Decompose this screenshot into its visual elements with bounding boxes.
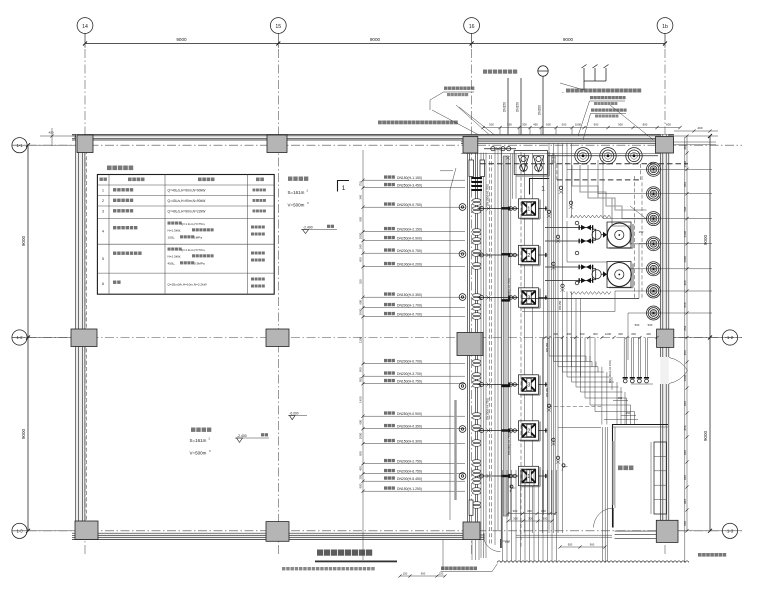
svg-text:Q=25m3/h,H=10m,N=2.2kW: Q=25m3/h,H=10m,N=2.2kW — [168, 283, 207, 287]
pipe label DN200(H-5.450) — [361, 476, 465, 482]
pipe riser R3 at right wall — [647, 212, 713, 226]
long horizontal mains — [522, 299, 639, 312]
svg-text:450L,: 450L, — [168, 262, 176, 266]
wall sleeve with puddle flange 5 — [459, 426, 466, 433]
pipe label DN150(H-0.750) — [361, 379, 465, 385]
top dimension line 9000 spans — [83, 34, 667, 49]
dashed equipment outline below header — [557, 164, 641, 180]
elevation marker -6.000 — [288, 412, 307, 420]
axis bubble right 1-2 — [722, 330, 737, 345]
section mark 1 in tank — [338, 181, 350, 193]
exterior wall left — [76, 135, 87, 540]
svg-text:DN150: DN150 — [545, 342, 549, 352]
svg-text:400: 400 — [646, 332, 651, 336]
svg-text:S=161m: S=161m — [288, 190, 305, 195]
column G1-C — [75, 521, 98, 540]
svg-text:300: 300 — [522, 122, 527, 126]
svg-text:DN200(H-0.700): DN200(H-0.700) — [397, 313, 422, 317]
svg-text:DN250(H-0.900): DN250(H-0.900) — [397, 237, 422, 241]
note outdoor pump adapter right — [561, 89, 641, 95]
svg-text:DN250(H-0.900): DN250(H-0.900) — [397, 412, 422, 416]
svg-text:900: 900 — [421, 572, 426, 576]
gray stepped pipes from top risers — [572, 165, 647, 244]
flexible joint zigzag below unit M2 — [570, 292, 611, 295]
axis bubble top 16 — [464, 18, 480, 34]
svg-text:5: 5 — [102, 257, 104, 261]
svg-text:Q=40L/s,H=90m,N=90kW: Q=40L/s,H=90m,N=90kW — [168, 199, 207, 203]
svg-text:300: 300 — [593, 332, 598, 336]
pipe riser R1 at right wall — [647, 162, 713, 176]
svg-text:Q=40L/s,H=90m,N=22kW: Q=40L/s,H=90m,N=22kW — [168, 210, 207, 214]
svg-text:←: ← — [561, 89, 565, 94]
pipes from wall to pump 1 — [513, 154, 517, 199]
svg-text:1450: 1450 — [359, 396, 363, 403]
pressure tank nozzle symbol 2 — [533, 156, 544, 172]
gauge circles on dashed line — [575, 221, 579, 285]
diagonal connector to riser R3 — [630, 206, 647, 219]
vertical axis grid line 1 — [84, 34, 86, 557]
svg-text:-2.400: -2.400 — [303, 226, 313, 230]
svg-text:150: 150 — [359, 474, 363, 479]
valve marks on manifold verticals — [547, 186, 573, 464]
bottom-right note text — [698, 553, 726, 557]
column G3-A — [463, 137, 478, 154]
wall sleeve with puddle flange 2 — [459, 251, 466, 258]
svg-text:450: 450 — [359, 257, 363, 262]
fire pump P3 — [478, 288, 548, 308]
svg-text:300: 300 — [567, 332, 572, 336]
svg-text:1b: 1b — [662, 24, 668, 30]
svg-text:150: 150 — [639, 230, 644, 234]
diagonal leader top right — [560, 83, 654, 140]
leader lines from notes to wall penetrations — [432, 105, 494, 135]
header pipe with gate valves below wall — [484, 147, 516, 160]
svg-text:DN200(H-3.700): DN200(H-3.700) — [397, 372, 422, 376]
main pump unit M2 motor — [607, 262, 633, 288]
horizontal axis grid line 2 — [12, 337, 742, 339]
svg-text:1MPa: 1MPa — [194, 236, 202, 240]
small dims on risers — [613, 396, 636, 416]
svg-text:150: 150 — [505, 540, 510, 544]
manifold vertical pipes group A — [544, 143, 563, 533]
svg-text:16: 16 — [469, 24, 475, 30]
svg-text:2900: 2900 — [359, 308, 363, 315]
drawing title text — [317, 550, 372, 556]
break line wavy — [497, 561, 689, 563]
svg-text:950: 950 — [359, 451, 363, 456]
svg-text:DN150(H-1.150): DN150(H-1.150) — [397, 176, 422, 180]
svg-text:DN150(H-0.350): DN150(H-0.350) — [397, 293, 422, 297]
svg-text:DN200(H-0.700): DN200(H-0.700) — [397, 360, 422, 364]
main pump unit M2 pump body — [592, 269, 607, 280]
svg-text:9000: 9000 — [21, 428, 26, 439]
column G3-B — [457, 333, 483, 356]
exterior wall top — [72, 135, 674, 144]
column G4-A — [656, 137, 674, 154]
note hydrant adapter left with leader — [430, 87, 474, 111]
axis bubble left 1-3 — [12, 523, 27, 538]
equipment schedule table — [97, 175, 274, 295]
fire pump P1 — [478, 199, 548, 219]
svg-text:1: 1 — [527, 474, 530, 480]
svg-text:450: 450 — [359, 466, 363, 471]
main pump unit M2 valve 2 — [545, 278, 593, 283]
sleeve boxes in interior wall — [469, 160, 485, 515]
svg-text:300: 300 — [513, 509, 518, 513]
svg-text:DN150(H-1.250): DN150(H-1.250) — [397, 487, 422, 491]
svg-text:500: 500 — [648, 323, 653, 327]
suction inlet pipe line — [510, 154, 512, 521]
svg-text:150: 150 — [541, 509, 546, 513]
svg-text:400: 400 — [48, 131, 53, 135]
svg-text:-2.400: -2.400 — [237, 434, 247, 438]
svg-text:300: 300 — [631, 332, 636, 336]
tank inner sump edge line — [440, 168, 456, 520]
svg-text:300: 300 — [528, 517, 533, 521]
rotated DN150 labels lower zone — [545, 300, 562, 397]
pipe label leader dimension chain — [362, 150, 364, 560]
solid riser pipes beside rack — [495, 147, 501, 548]
svg-text:2: 2 — [102, 199, 104, 203]
svg-text:DN200(H-0.750): DN200(H-0.750) — [397, 249, 422, 253]
segment dimension numbers rotated — [359, 181, 363, 488]
svg-text:15: 15 — [275, 24, 281, 30]
fire pump P5 — [478, 421, 548, 441]
pipe riser R7 at right wall — [647, 306, 713, 320]
pipe label DN150(H-1.150) — [361, 175, 465, 181]
exterior wall right — [660, 135, 669, 540]
main pump unit M1 pump body — [592, 229, 607, 240]
unit anchor dashed lines — [635, 176, 644, 300]
city water inlet pipes DN150 — [503, 78, 522, 135]
vertical axis grid line 4 — [664, 34, 666, 557]
svg-text:500: 500 — [359, 377, 363, 382]
fire water tank label lower — [190, 428, 212, 456]
svg-text:DN150(H-0.750): DN150(H-0.750) — [397, 380, 422, 384]
vertical axis grid line 2 — [277, 34, 279, 557]
table title text — [107, 166, 133, 171]
right dimension line 9000 spans — [670, 134, 742, 533]
svg-text:DN200: DN200 — [538, 105, 542, 115]
svg-text:V=500m: V=500m — [288, 203, 305, 208]
top-right 400 dimension — [670, 126, 718, 145]
left dimension line 9000 spans — [12, 143, 74, 533]
wall sleeve with puddle flange 4 — [459, 383, 466, 390]
svg-text:320: 320 — [359, 279, 363, 284]
pipe label DN200(H-0.750) — [361, 202, 465, 208]
pump room exit door with swing arc — [484, 533, 510, 551]
pump column connecting pipes — [525, 153, 533, 533]
vertical axis grid line 3 — [471, 34, 473, 557]
bottom small dimension chain — [398, 572, 446, 578]
table row 1 — [102, 188, 266, 192]
svg-text:9000: 9000 — [563, 37, 574, 42]
svg-text:DN200(H-0.750): DN200(H-0.750) — [397, 203, 422, 207]
svg-text:DN100x(H-0.150): DN100x(H-0.150) — [608, 360, 612, 383]
pipe label DN150(H-1.250) — [361, 486, 465, 492]
column G2-A — [267, 135, 287, 153]
svg-text:300: 300 — [618, 332, 623, 336]
svg-text:150L,: 150L, — [168, 236, 176, 240]
svg-text:600: 600 — [666, 122, 671, 126]
pipe label DN200(H-0.350) — [361, 424, 465, 430]
svg-text:N=1.5kW,: N=1.5kW, — [168, 255, 182, 259]
pipe rack flanges — [471, 177, 482, 191]
svg-text:1000: 1000 — [359, 432, 363, 439]
pipe label DN200(H-2.150) — [361, 227, 465, 233]
drawing title underline — [315, 561, 397, 563]
cascade dashed axis — [548, 406, 601, 408]
svg-text:0.9MPa: 0.9MPa — [194, 262, 205, 266]
control room door arc — [594, 508, 614, 528]
top wall dimension chain — [481, 122, 681, 134]
svg-text:300: 300 — [513, 517, 518, 521]
pipe label DN250(H-3.450) — [361, 183, 465, 189]
axis bubble left 1-1 — [12, 138, 27, 153]
cascade stepped pipes to lower right — [542, 338, 638, 534]
svg-text:DN100(H-0.200): DN100(H-0.200) — [397, 263, 422, 267]
svg-text:3: 3 — [527, 383, 530, 389]
riser pairs with flanges mid right — [623, 338, 653, 385]
right side dimension extension line — [684, 137, 686, 562]
elevation marker -2.400 lower — [235, 433, 269, 442]
svg-text:150: 150 — [439, 572, 444, 576]
horizontal axis grid line 3 — [12, 530, 742, 532]
svg-text:N=1.5kW,: N=1.5kW, — [168, 229, 182, 233]
pipe label DN200(H-6.750) — [361, 469, 465, 475]
mid-plan dimension chain at grid axis — [543, 323, 658, 339]
svg-text:9000: 9000 — [21, 235, 26, 246]
flexible joint zigzag above unit M1 — [570, 215, 611, 218]
svg-text:340: 340 — [359, 194, 363, 199]
svg-text:800: 800 — [643, 122, 648, 126]
svg-text:1: 1 — [342, 185, 346, 192]
svg-text:240: 240 — [359, 244, 363, 249]
pipe riser R5 at right wall — [647, 262, 713, 276]
vertical pipe risers along interior wall — [481, 153, 486, 558]
pipe riser R2 at right wall — [647, 187, 713, 201]
svg-text:9000: 9000 — [176, 37, 187, 42]
pipe label DN200(H-1.700) — [361, 303, 465, 309]
svg-text:600: 600 — [546, 122, 551, 126]
pipe rack flange oval pairs — [472, 199, 480, 509]
svg-text:950: 950 — [359, 216, 363, 221]
svg-text:600: 600 — [359, 419, 363, 424]
pressure tank nozzle symbol 1 — [518, 156, 529, 172]
table row 3 — [102, 209, 266, 213]
svg-text:DN250(H-3.450): DN250(H-3.450) — [397, 184, 422, 188]
svg-text:2: 2 — [527, 429, 530, 435]
svg-text:Q=1.1L/s,H=70m,: Q=1.1L/s,H=70m, — [181, 248, 206, 252]
pipe label DN200(H-0.750) — [361, 248, 465, 254]
svg-text:900: 900 — [359, 483, 363, 488]
axis bubble top 1b — [657, 18, 673, 34]
svg-text:DN150: DN150 — [545, 387, 549, 397]
svg-text:150: 150 — [626, 411, 631, 415]
svg-text:1100: 1100 — [359, 337, 363, 344]
svg-text:6: 6 — [102, 282, 104, 286]
bottom-right small dimension chain — [558, 543, 606, 549]
column G3-C — [463, 522, 480, 540]
dashed pipes beside rack — [490, 152, 522, 548]
trench dashed line along top wall — [480, 163, 688, 165]
svg-text:DN150: DN150 — [516, 102, 520, 112]
table row 6 — [102, 278, 265, 288]
wall sleeve with puddle flange 3 — [459, 294, 466, 301]
svg-text:500: 500 — [489, 122, 494, 126]
svg-text:1200: 1200 — [605, 332, 612, 336]
drawing note line — [282, 567, 375, 570]
trench edge lines right of door — [516, 535, 612, 537]
svg-text:DN200(H-0.350): DN200(H-0.350) — [397, 425, 422, 429]
bottom extension pipes through wall — [443, 540, 479, 571]
drain elbow hooks — [510, 464, 568, 492]
svg-text:900: 900 — [618, 122, 623, 126]
note outdoor adapter far-left — [378, 121, 458, 125]
svg-text:500: 500 — [562, 122, 567, 126]
section mark 1 in pump room — [530, 179, 550, 195]
svg-text:S=161m: S=161m — [190, 438, 207, 443]
svg-text:4: 4 — [102, 230, 104, 234]
svg-text:500: 500 — [568, 543, 573, 547]
svg-text:DN150: DN150 — [558, 300, 562, 310]
axis bubble top 14 — [77, 18, 93, 34]
svg-text:1000: 1000 — [575, 122, 582, 126]
horizontal axis grid line 1 — [12, 144, 742, 146]
svg-text:Q=40L/s,H=90m,N=90kW: Q=40L/s,H=90m,N=90kW — [168, 189, 207, 193]
svg-text:DN200(H-2.750): DN200(H-2.750) — [397, 460, 422, 464]
top-left 400 dimension — [40, 128, 78, 146]
manifold elbows to right risers — [567, 160, 647, 360]
suction valve circles at rack per pump — [480, 207, 491, 479]
svg-text:3: 3 — [102, 210, 104, 214]
column G4-B — [657, 329, 674, 347]
interior wall grid-3 between tank and pump room — [468, 140, 478, 533]
svg-text:900: 900 — [590, 543, 595, 547]
svg-text:9000: 9000 — [370, 37, 381, 42]
axis bubble left 1-2 — [12, 330, 27, 345]
pump unit surround box — [567, 221, 631, 262]
pipe riser R4 at right wall — [647, 237, 713, 251]
svg-text:1: 1 — [527, 207, 530, 213]
svg-text:1: 1 — [102, 189, 104, 193]
svg-text:DN150(H-0.700): DN150(H-0.700) — [486, 184, 490, 206]
wall sleeve with puddle flange 1 — [459, 204, 466, 211]
pipe label DN150(H-0.300) — [361, 439, 465, 445]
svg-text:DN200(H-5.450): DN200(H-5.450) — [397, 477, 422, 481]
note sprinkler adapter 2 with leader — [583, 109, 627, 141]
svg-text:150: 150 — [403, 572, 408, 576]
table header row — [100, 178, 264, 182]
pump room inner wall face line — [461, 153, 660, 155]
svg-text:14: 14 — [82, 24, 88, 30]
pipe label DN150(H-0.350) — [361, 292, 465, 298]
svg-text:600: 600 — [359, 299, 363, 304]
right wall exterior door — [669, 358, 688, 384]
pipe label DN200(H-0.700) — [361, 359, 465, 365]
fire connection flag symbols — [582, 65, 609, 91]
top pipe risers on header — [548, 148, 658, 164]
pipe label DN200(H-0.700) — [361, 312, 465, 318]
jockey pump platform box — [514, 151, 549, 177]
svg-text:DN150(H-4.750): DN150(H-4.750) — [486, 398, 490, 420]
svg-text:300: 300 — [543, 517, 548, 521]
svg-text:DN200(H-6.750): DN200(H-6.750) — [397, 470, 422, 474]
svg-text:9000: 9000 — [703, 430, 708, 441]
table row 2 — [102, 199, 266, 203]
svg-text:900: 900 — [594, 122, 599, 126]
svg-text:400: 400 — [697, 126, 702, 130]
pipe label DN250(H-0.900) — [361, 411, 465, 417]
exterior wall bottom — [72, 533, 484, 539]
fire water tank label upper — [288, 177, 310, 208]
svg-text:300: 300 — [580, 332, 585, 336]
svg-text:DN150: DN150 — [503, 102, 507, 112]
svg-text:1000: 1000 — [359, 232, 363, 239]
column G1-B — [71, 329, 97, 347]
table row 4 — [102, 222, 265, 240]
control cabinet stack — [651, 442, 667, 514]
svg-text:950: 950 — [359, 367, 363, 372]
pipe label DN250(H-0.900) — [361, 236, 465, 242]
main pump unit M2 valve 1 — [545, 264, 593, 269]
pipe label DN100(H-0.200) — [361, 262, 465, 268]
svg-text:1: 1 — [541, 186, 545, 193]
manifold vertical pipes group B — [567, 143, 581, 377]
fire pump P6 — [478, 466, 548, 486]
note sprinkler adapter 1 with leader — [578, 96, 626, 136]
svg-text:450: 450 — [533, 122, 538, 126]
pipe label DN200(H-3.700) — [361, 371, 465, 377]
pipe label DN200(H-2.750) — [361, 459, 465, 465]
main pump unit M1 motor — [607, 222, 633, 248]
svg-text:300: 300 — [527, 509, 532, 513]
svg-text:500: 500 — [635, 323, 640, 327]
table row 5 — [102, 248, 265, 266]
right inner segment dimension chain — [683, 134, 689, 532]
main pump unit M1 valve 1 — [545, 225, 593, 230]
svg-text:2: 2 — [527, 253, 530, 259]
valve symbol on DN200 inlet — [538, 66, 549, 135]
svg-text:DN200(H-0.750): DN200(H-0.750) — [507, 433, 511, 455]
column G1-A — [77, 135, 93, 153]
svg-text:950: 950 — [507, 122, 512, 126]
drain pipes dropping to break line — [503, 470, 557, 562]
column G2-C — [266, 522, 289, 542]
elevation marker -2.400 upper — [301, 225, 337, 234]
svg-text:DN150(H-0.300): DN150(H-0.300) — [397, 440, 422, 444]
wall sleeve with puddle flange 6 — [459, 473, 466, 480]
control room walls — [612, 425, 668, 539]
svg-text:V=500m: V=500m — [190, 451, 207, 456]
svg-text:DN200(H-2.150): DN200(H-2.150) — [397, 228, 422, 232]
svg-text:750: 750 — [359, 181, 363, 186]
fire pump P2 — [478, 245, 548, 265]
column G2-B — [266, 329, 289, 347]
suction header pipe DN250 gray band — [502, 156, 510, 516]
svg-text:150: 150 — [618, 396, 623, 400]
svg-text:Q=1.1L/s,H=75m,: Q=1.1L/s,H=75m, — [181, 222, 206, 226]
lower inner dimension chains — [506, 509, 556, 523]
control room label — [618, 466, 633, 471]
pipe riser R6 at right wall — [647, 284, 713, 298]
axis bubble right 1-3 — [722, 523, 737, 538]
main pump unit M1 valve 2 — [545, 238, 593, 243]
column G4-C — [656, 520, 678, 542]
fire pump P4 — [478, 375, 548, 395]
svg-text:DN200(H-1.700): DN200(H-1.700) — [397, 304, 422, 308]
control room pipes to break line — [602, 427, 607, 562]
